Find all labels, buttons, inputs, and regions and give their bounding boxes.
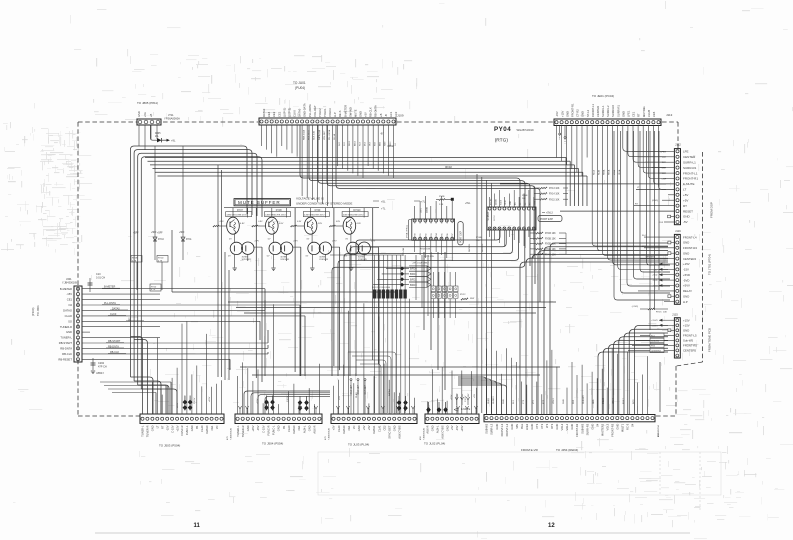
svg-text:CENTER5: CENTER5 <box>683 349 696 353</box>
svg-text:RY13 10K: RY13 10K <box>549 188 560 190</box>
svg-text:BFD3: BFD3 <box>410 283 417 287</box>
svg-text:Sub-W5: Sub-W5 <box>683 339 694 343</box>
svg-text:FUNC-R: FUNC-R <box>267 425 271 435</box>
svg-text:GND: GND <box>683 251 689 255</box>
svg-text:VOL-DET: VOL-DET <box>324 130 326 140</box>
svg-text:FRONT-R1: FRONT-R1 <box>683 177 698 181</box>
svg-text:+5A: +5A <box>143 112 147 117</box>
svg-text:B-METER: B-METER <box>343 105 347 117</box>
svg-text:P05: P05 <box>442 233 444 236</box>
svg-text:BFD1: BFD1 <box>410 272 417 276</box>
svg-text:FRONT-L5: FRONT-L5 <box>683 334 697 338</box>
svg-text:U/B0LY: U/B0LY <box>96 372 104 375</box>
svg-text:MUTE: MUTE <box>353 109 357 117</box>
svg-text:FRONT-L4: FRONT-L4 <box>683 235 697 239</box>
svg-text:2.7V: 2.7V <box>332 241 337 243</box>
svg-text:+15V: +15V <box>683 262 690 266</box>
svg-text:GND: GND <box>359 111 363 117</box>
svg-text:VOL-DET: VOL-DET <box>313 105 317 117</box>
svg-text:(P104): (P104) <box>31 308 35 316</box>
svg-text:+7L: +7L <box>421 201 426 204</box>
svg-text:MCJ: MCJ <box>364 142 366 146</box>
svg-text:CT2: CT2 <box>540 423 544 428</box>
svg-text:TO JL02 (PL04): TO JL02 (PL04) <box>424 442 445 446</box>
svg-text:C-15V: C-15V <box>261 425 265 433</box>
svg-text:+5V: +5V <box>367 425 371 430</box>
svg-text:VOLK3: VOLK3 <box>328 108 332 117</box>
svg-text:+5V: +5V <box>339 396 341 400</box>
svg-text:TUNER-R: TUNER-R <box>60 325 72 329</box>
svg-text:TO J503 (P504): TO J503 (P504) <box>159 444 180 448</box>
svg-text:+7L: +7L <box>381 207 386 211</box>
svg-text:CE1: CE1 <box>347 425 351 431</box>
svg-text:SVD3: SVD3 <box>431 219 433 224</box>
svg-text:YOLK2: YOLK2 <box>318 108 322 117</box>
svg-text:MUTING: MUTING <box>642 106 646 117</box>
svg-text:PLL-DNTA: PLL-DNTA <box>308 104 312 117</box>
svg-text:FL3: FL3 <box>513 399 515 404</box>
svg-text:4.7K: 4.7K <box>132 260 137 262</box>
svg-text:LT3: LT3 <box>533 400 535 404</box>
svg-text:RB-RESET: RB-RESET <box>58 357 72 361</box>
svg-text:GND: GND <box>447 219 449 224</box>
svg-text:MIN: MIN <box>515 424 519 429</box>
svg-text:4.8M GE8117EE 4GT2: 4.8M GE8117EE 4GT2 <box>304 215 325 217</box>
svg-text:GND: GND <box>495 424 499 430</box>
svg-text:S3J: S3J <box>344 143 346 146</box>
svg-text:CE1: CE1 <box>67 298 73 302</box>
svg-text:CLK1: CLK1 <box>421 207 423 213</box>
svg-text:470: 470 <box>227 436 229 440</box>
svg-text:GND: GND <box>66 330 72 334</box>
svg-text:CLA1: CLA1 <box>377 425 381 432</box>
svg-text:VDD: VDD <box>510 200 512 205</box>
svg-text:GND: GND <box>581 111 585 117</box>
svg-text:RY1B 10K: RY1B 10K <box>545 233 556 235</box>
svg-text:RESET: RESET <box>683 209 693 213</box>
svg-text:SYE1045: SYE1045 <box>280 259 290 261</box>
svg-text:SVD0: SVD0 <box>415 219 417 224</box>
svg-text:RY2B 18K: RY2B 18K <box>420 249 431 251</box>
svg-text:CE2: CE2 <box>277 111 281 117</box>
svg-text:-B: -B <box>384 114 388 117</box>
svg-text:YOLK1: YOLK1 <box>323 108 327 117</box>
svg-text:UNDER CONDITION OF STEREO MODE: UNDER CONDITION OF STEREO MODE <box>296 202 352 206</box>
svg-text:+5VL3: +5VL3 <box>546 213 553 215</box>
svg-text:CLAO: CLAO <box>65 314 72 318</box>
svg-text:GND: GND <box>683 241 689 245</box>
svg-text:RT: RT <box>637 113 641 117</box>
svg-text:SURR-L1: SURR-L1 <box>601 105 605 117</box>
svg-text:CE1: CE1 <box>297 425 301 431</box>
svg-text:-5V: -5V <box>683 220 688 224</box>
svg-text:DY0B (TY811): DY0B (TY811) <box>407 225 409 238</box>
svg-text:GND: GND <box>503 399 505 404</box>
svg-text:RY1D: RY1D <box>158 258 164 260</box>
svg-text:11: 11 <box>194 523 201 529</box>
svg-text:0V: 0V <box>306 256 309 258</box>
svg-text:DATA0: DATA0 <box>298 108 302 117</box>
svg-text:P01: P01 <box>420 233 422 236</box>
svg-text:DY12: DY12 <box>494 215 496 221</box>
svg-text:FUNC-L: FUNC-L <box>185 425 189 435</box>
svg-text:FRONT-R1: FRONT-R1 <box>571 103 575 117</box>
svg-text:CE5: CE5 <box>652 111 656 117</box>
svg-text:DY07: DY07 <box>237 210 243 212</box>
svg-text:LT: LT <box>683 188 686 192</box>
svg-text:-5VD: -5VD <box>653 280 658 282</box>
svg-text:SUB-W3: SUB-W3 <box>583 395 585 404</box>
svg-text:TUNER-R: TUNER-R <box>146 425 150 437</box>
svg-text:1.5K: 1.5K <box>439 204 444 206</box>
svg-text:+5V: +5V <box>364 112 368 117</box>
svg-text:SURR-R1: SURR-R1 <box>683 166 697 170</box>
svg-text:CE1: CE1 <box>210 425 214 431</box>
svg-text:CE3: CE3 <box>272 111 276 117</box>
svg-text:S4J: S4J <box>339 143 341 146</box>
svg-text:SL1A: SL1A <box>592 169 595 175</box>
svg-text:DY010: DY010 <box>353 210 361 212</box>
svg-text:+15V: +15V <box>257 398 259 404</box>
svg-text:GND: GND <box>535 200 537 205</box>
svg-text:C10 12P: C10 12P <box>350 385 353 395</box>
svg-text:RE-S: RE-S <box>338 110 342 117</box>
svg-text:GND: GND <box>565 111 569 117</box>
svg-text:GND: GND <box>563 399 565 404</box>
svg-text:VOL1: VOL1 <box>565 423 569 430</box>
svg-text:RY5B 10K: RY5B 10K <box>545 238 556 240</box>
svg-text:P07: P07 <box>452 233 454 236</box>
svg-text:FROM TONE PCB: FROM TONE PCB <box>708 328 712 352</box>
svg-text:RT3: RT3 <box>550 423 554 428</box>
svg-text:+15V: +15V <box>251 425 255 431</box>
svg-text:SL2A: SL2A <box>598 169 601 175</box>
svg-text:GND: GND <box>151 425 155 431</box>
svg-text:TO J801: TO J801 <box>36 305 40 316</box>
svg-text:GND: GND <box>190 425 194 431</box>
svg-text:CLK0: CLK0 <box>293 110 297 117</box>
svg-text:-15V: -15V <box>468 393 470 398</box>
svg-text:SWJ: SWJ <box>385 142 387 146</box>
svg-text:SR2A: SR2A <box>603 169 606 175</box>
svg-text:+5V: +5V <box>474 394 476 398</box>
svg-text:H-P: H-P <box>333 112 337 117</box>
svg-text:+15V: +15V <box>177 402 179 408</box>
svg-text:CT-R2: CT-R2 <box>576 109 580 117</box>
svg-text:AUX-CYBS: AUX-CYBS <box>398 425 402 439</box>
svg-text:SW-IND: SW-IND <box>348 107 352 117</box>
svg-text:AUX-L: AUX-L <box>302 425 306 433</box>
svg-text:TO J805 (P811): TO J805 (P811) <box>137 101 158 105</box>
svg-text:+15V: +15V <box>460 425 464 431</box>
svg-text:VOL3: VOL3 <box>605 423 609 430</box>
svg-text:FR3: FR3 <box>651 345 656 347</box>
svg-text:10K: 10K <box>522 198 526 200</box>
svg-text:CENTER4: CENTER4 <box>683 257 696 261</box>
svg-text:+15V: +15V <box>683 318 690 322</box>
svg-text:J301: J301 <box>66 277 72 281</box>
svg-text:P1: P1 <box>520 203 522 205</box>
svg-text:0V: 0V <box>267 256 270 258</box>
svg-text:FUNC-L: FUNC-L <box>272 425 276 435</box>
svg-text:0V: 0V <box>229 239 232 241</box>
svg-text:+5FF: +5FF <box>179 232 185 234</box>
svg-text:DRCMXL: DRCMXL <box>482 243 484 252</box>
svg-text:FRONT-L2: FRONT-L2 <box>505 423 509 436</box>
svg-text:P0: P0 <box>515 203 517 205</box>
svg-text:+9L: +9L <box>171 139 176 143</box>
svg-text:AC1: AC1 <box>389 111 393 117</box>
svg-text:GND: GND <box>246 425 250 431</box>
svg-text:LFE2: LFE2 <box>525 423 529 430</box>
svg-text:CE2: CE2 <box>382 425 386 431</box>
svg-text:SURR-R1: SURR-R1 <box>616 105 620 117</box>
svg-text:+5V: +5V <box>683 198 688 202</box>
svg-text:CLK-0JA: CLK-0JA <box>313 131 316 140</box>
svg-text:FR3: FR3 <box>573 399 575 404</box>
svg-text:+5L: +5L <box>381 200 386 204</box>
svg-text:WG287J2019: WG287J2019 <box>517 128 535 132</box>
svg-text:4.8M GE8117EE 4GT2: 4.8M GE8117EE 4GT2 <box>343 215 364 217</box>
svg-text:DATAO: DATAO <box>63 309 72 313</box>
svg-text:-15V: -15V <box>462 393 464 398</box>
svg-text:RY14 10K: RY14 10K <box>549 194 560 196</box>
svg-text:DY08: DY08 <box>276 210 282 212</box>
svg-text:TO JE01 (PC04): TO JE01 (PC04) <box>592 94 614 98</box>
svg-text:J109: J109 <box>397 114 404 118</box>
svg-text:P00: P00 <box>415 233 417 236</box>
svg-text:GJ: GJ <box>395 143 397 146</box>
svg-text:RY21 WW: RY21 WW <box>425 256 434 258</box>
svg-text:TO JL03 (PL04): TO JL03 (PL04) <box>348 443 369 447</box>
svg-text:4.8V: 4.8V <box>240 223 245 225</box>
svg-text:DY10: DY10 <box>158 239 164 241</box>
svg-text:VKJ: VKJ <box>370 142 372 146</box>
svg-text:CE1: CE1 <box>632 111 636 117</box>
svg-text:LT: LT <box>156 425 160 428</box>
svg-text:4.8V: 4.8V <box>297 221 302 223</box>
svg-text:SRCMXL: SRCMXL <box>469 243 471 252</box>
svg-text:RY5B: RY5B <box>522 195 528 197</box>
svg-text:RT: RT <box>160 425 164 429</box>
svg-text:MULT1: MULT1 <box>621 423 625 432</box>
svg-text:2.7V: 2.7V <box>293 241 298 243</box>
svg-text:GND: GND <box>307 425 311 431</box>
svg-text:0V: 0V <box>307 239 310 241</box>
svg-text:21L: 21L <box>155 136 160 138</box>
svg-text:-15V: -15V <box>683 268 689 272</box>
svg-text:C-15V: C-15V <box>465 395 467 402</box>
svg-text:PY04: PY04 <box>494 126 511 133</box>
svg-text:VOL3: VOL3 <box>553 398 555 404</box>
svg-text:B-METER: B-METER <box>60 287 72 291</box>
svg-text:FRONT-R2: FRONT-R2 <box>575 423 579 437</box>
svg-text:SR1A: SR1A <box>608 169 611 175</box>
svg-text:GND: GND <box>570 424 574 430</box>
svg-text:E-MUTE: E-MUTE <box>461 408 471 411</box>
svg-text:GND: GND <box>137 111 141 117</box>
svg-text:+5V: +5V <box>332 425 336 430</box>
svg-text:H.P: H.P <box>683 300 688 304</box>
svg-text:-15V: -15V <box>457 393 459 398</box>
svg-text:JT11: JT11 <box>168 113 174 117</box>
svg-text:+5FL 0.5uF C8817: +5FL 0.5uF C8817 <box>412 263 430 265</box>
svg-text:CE4: CE4 <box>267 111 271 117</box>
svg-text:FRONT-L3: FRONT-L3 <box>500 423 504 436</box>
svg-text:+5VL: +5VL <box>465 203 471 205</box>
svg-text:RB-CLK: RB-CLK <box>62 352 72 356</box>
svg-text:AUX-CYBS: AUX-CYBS <box>440 425 444 439</box>
svg-text:(PU04): (PU04) <box>295 86 305 90</box>
svg-text:PORT EXP: PORT EXP <box>460 231 463 243</box>
svg-text:D305: D305 <box>155 133 161 135</box>
svg-text:MUTE BUFFER: MUTE BUFFER <box>238 200 281 205</box>
svg-text:GND: GND <box>683 294 689 298</box>
svg-text:+5VV: +5VV <box>683 284 690 288</box>
svg-text:GND-DATA: GND-DATA <box>303 103 307 117</box>
svg-text:MASTER2: MASTER2 <box>600 423 604 436</box>
svg-text:RT: RT <box>635 204 639 206</box>
svg-text:LFE1: LFE1 <box>627 110 631 117</box>
svg-text:GND: GND <box>445 425 449 431</box>
svg-text:SUB-W2: SUB-W2 <box>485 423 489 434</box>
svg-text:FROM DSP: FROM DSP <box>710 202 714 218</box>
svg-text:0V: 0V <box>228 256 231 258</box>
svg-text:P.F50/RC04: P.F50/RC04 <box>658 424 660 437</box>
svg-text:RELAY: RELAY <box>683 289 692 293</box>
svg-text:GND: GND <box>616 424 620 430</box>
svg-text:RB8-04JA: RB8-04JA <box>303 129 306 140</box>
svg-text:RY15 10K: RY15 10K <box>549 199 560 201</box>
svg-text:DATA1: DATA1 <box>388 388 391 396</box>
svg-text:FRONT-L1: FRONT-L1 <box>683 171 698 175</box>
svg-text:4.7K: 4.7K <box>151 289 156 291</box>
svg-text:RB-DNTA: RB-DNTA <box>60 347 72 351</box>
svg-text:+15V: +15V <box>451 394 453 400</box>
svg-text:+15V: +15V <box>209 396 211 402</box>
svg-text:SCK0: SCK0 <box>500 200 502 205</box>
svg-text:AM1J: AM1J <box>353 141 356 146</box>
svg-text:+B: +B <box>379 113 383 117</box>
svg-text:(+5V3): (+5V3) <box>632 306 639 308</box>
svg-text:0.01 CH: 0.01 CH <box>96 277 105 280</box>
svg-text:FROM E-VR: FROM E-VR <box>521 448 539 452</box>
svg-text:PLL-0NTA: PLL-0NTA <box>328 129 331 140</box>
svg-text:4.8V: 4.8V <box>279 223 284 225</box>
svg-text:4.8V: 4.8V <box>356 223 361 225</box>
svg-text:+5FF: +5FF <box>133 232 139 235</box>
svg-text:J115: J115 <box>672 313 678 317</box>
svg-text:FRONT-R4: FRONT-R4 <box>683 246 697 250</box>
svg-text:CENTER: CENTER <box>596 106 600 117</box>
svg-text:WW: WW <box>470 298 475 300</box>
svg-text:SC9674: SC9674 <box>487 211 490 220</box>
svg-text:4.8V: 4.8V <box>318 223 323 225</box>
svg-text:12: 12 <box>548 523 555 529</box>
svg-text:-15V: -15V <box>66 292 72 296</box>
svg-text:TJB0001UB: TJB0001UB <box>329 428 331 440</box>
svg-text:+B: +B <box>149 113 153 117</box>
svg-text:GND: GND <box>621 111 625 117</box>
svg-text:VOLTAGE VALUE IS: VOLTAGE VALUE IS <box>296 197 324 201</box>
svg-text:DATA0: DATA0 <box>205 425 209 434</box>
svg-text:+15V3: +15V3 <box>651 320 658 322</box>
svg-text:-15V: -15V <box>256 425 260 431</box>
svg-text:SURR3: SURR3 <box>493 396 495 404</box>
svg-text:BFD2: BFD2 <box>410 278 417 282</box>
svg-text:SYNC-DET: SYNC-DET <box>387 425 391 439</box>
svg-text:+15V: +15V <box>683 324 690 328</box>
svg-text:(L0P-B): (L0P-B) <box>288 108 292 117</box>
svg-text:TO JU01: TO JU01 <box>293 81 306 85</box>
svg-text:CLA0: CLA0 <box>337 425 341 432</box>
svg-text:FRONT-R3: FRONT-R3 <box>611 423 615 437</box>
svg-text:SURR-R3: SURR-R3 <box>585 423 589 435</box>
svg-text:DATA0: DATA0 <box>426 206 429 213</box>
svg-text:MGJ: MGJ <box>390 142 392 146</box>
svg-text:0V: 0V <box>268 239 271 241</box>
svg-text:SO: SO <box>68 319 72 323</box>
svg-text:SYE1045: SYE1045 <box>319 259 329 261</box>
svg-text:O2: O2 <box>68 303 72 307</box>
svg-text:0V: 0V <box>344 256 347 258</box>
svg-text:LT: LT <box>637 187 640 189</box>
svg-text:CLA0: CLA0 <box>200 425 204 432</box>
svg-text:SURR-L1: SURR-L1 <box>683 160 696 164</box>
svg-text:TUNER-R: TUNER-R <box>241 425 245 437</box>
svg-text:GND: GND <box>530 424 534 430</box>
svg-text:B1: B1 <box>195 425 199 429</box>
svg-text:CENTER: CENTER <box>683 155 696 159</box>
svg-text:P06: P06 <box>447 233 449 236</box>
svg-text:S4: S4 <box>631 423 635 427</box>
svg-text:+5V: +5V <box>450 425 454 430</box>
svg-text:AUX-R: AUX-R <box>426 425 430 433</box>
svg-text:+5V: +5V <box>362 425 366 430</box>
svg-text:CT3: CT3 <box>523 399 525 404</box>
svg-text:+5V: +5V <box>683 193 688 197</box>
svg-text:0K/02: 0K/02 <box>445 165 452 169</box>
svg-text:BMJ: BMJ <box>380 142 382 146</box>
svg-text:FRONT-R5: FRONT-R5 <box>683 344 697 348</box>
svg-text:2.7V: 2.7V <box>371 241 376 243</box>
svg-text:(L0P-S): (L0P-S) <box>282 108 286 117</box>
svg-text:B1: B1 <box>282 425 286 429</box>
svg-text:SURR-L3: SURR-L3 <box>490 423 494 435</box>
svg-text:P2: P2 <box>525 203 527 205</box>
svg-text:2.7V: 2.7V <box>255 241 260 243</box>
svg-text:C16 12P: C16 12P <box>357 385 360 395</box>
svg-text:P04: P04 <box>436 233 438 236</box>
svg-text:DY09: DY09 <box>315 210 321 212</box>
svg-text:SVD1: SVD1 <box>420 219 422 224</box>
svg-text:LT3: LT3 <box>545 423 549 428</box>
svg-text:FUNC-R: FUNC-R <box>180 425 184 435</box>
svg-text:DATA0: DATA0 <box>292 425 296 434</box>
svg-text:DATA0: DATA0 <box>342 425 346 434</box>
svg-text:-15V: -15V <box>555 111 559 117</box>
svg-text:VOL2: VOL2 <box>560 423 564 430</box>
svg-text:47P CH: 47P CH <box>98 366 107 369</box>
svg-text:J113: J113 <box>666 113 673 117</box>
svg-text:+5FF: +5FF <box>157 232 163 235</box>
svg-text:LFE: LFE <box>683 150 689 154</box>
svg-text:+15V: +15V <box>560 110 564 117</box>
svg-text:RY10: RY10 <box>151 286 157 288</box>
svg-text:-5VD: -5VD <box>683 278 689 282</box>
svg-text:AC2: AC2 <box>394 111 398 117</box>
svg-text:+15V: +15V <box>175 425 179 431</box>
